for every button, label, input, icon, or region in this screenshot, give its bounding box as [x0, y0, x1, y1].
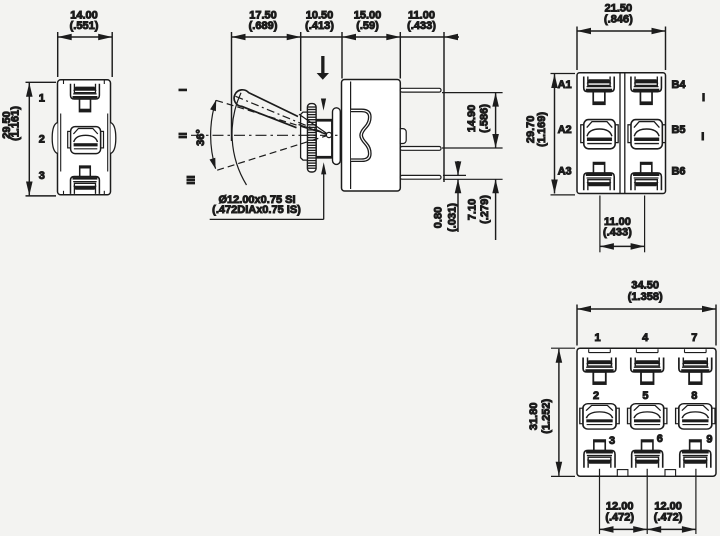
extension lines of top dimensions	[231, 32, 233, 141]
top-right view: terminal B6	[631, 163, 661, 191]
svg-text:2: 2	[593, 390, 599, 402]
bottom-right view: dimension 31.80 (1.252)	[528, 348, 575, 476]
svg-text:III: III	[186, 175, 198, 184]
svg-text:(1.161): (1.161)	[10, 106, 22, 141]
svg-text:I: I	[702, 92, 705, 104]
svg-text:5: 5	[642, 390, 648, 402]
svg-text:A3: A3	[558, 166, 572, 178]
top-right view: terminal A1	[584, 77, 614, 105]
svg-text:14.90: 14.90	[466, 105, 478, 133]
top-right view: terminal A3	[584, 163, 614, 191]
bottom-right view: body outline	[577, 348, 716, 476]
middle view: dimension 0.80 (.031)	[433, 161, 466, 232]
left view: switch body outline	[52, 80, 116, 195]
svg-text:B6: B6	[671, 166, 685, 178]
svg-text:(.472): (.472)	[654, 512, 683, 524]
bottom-right view: terminal 8 (screw)	[676, 404, 715, 429]
middle view: flange washer	[333, 108, 341, 165]
middle view: knurled nut	[307, 104, 316, 172]
middle view: position II axis (center line)	[191, 134, 341, 136]
middle view: dimension 7.10 (.279)	[443, 179, 503, 240]
svg-text:(.031): (.031)	[446, 203, 458, 232]
middle view: pin 3	[400, 175, 441, 179]
left view: right side bump	[111, 123, 116, 154]
top-right view: terminal A2	[581, 120, 618, 149]
svg-text:1: 1	[595, 332, 601, 344]
left view: left side bump	[52, 123, 57, 154]
left view: dimension 14.00 (.551)	[58, 9, 112, 77]
middle view: boss on right face	[400, 129, 406, 144]
middle view: mounting clip	[351, 109, 371, 161]
svg-text:(1.252): (1.252)	[541, 399, 553, 434]
bottom-right view: terminal 9 (spade, mirrored)	[680, 440, 711, 468]
middle view: bushing cylinder	[316, 120, 332, 159]
svg-text:(1.358): (1.358)	[628, 291, 663, 303]
svg-text:0.80: 0.80	[433, 207, 445, 228]
bottom-right view: terminal 3 (spade, mirrored)	[584, 440, 615, 468]
bottom-right view: dimensions 12.00 (.472) x2	[600, 469, 696, 534]
svg-text:(.846): (.846)	[604, 14, 633, 26]
svg-text:II: II	[177, 132, 189, 138]
top-right view: dimension 11.00 (.433)	[600, 196, 645, 253]
svg-text:B5: B5	[671, 124, 685, 136]
left view: top edge step marks	[63, 80, 65, 84]
bottom-right view: terminal 7 (spade)	[679, 358, 712, 385]
bottom-right view: top edge steps	[589, 349, 706, 352]
middle view: pin 1	[400, 88, 441, 92]
svg-text:(.59): (.59)	[356, 20, 379, 32]
svg-text:36°: 36°	[195, 129, 207, 146]
svg-text:6: 6	[657, 433, 663, 445]
svg-text:2: 2	[39, 134, 45, 146]
svg-text:(.433): (.433)	[407, 20, 436, 32]
middle view: lever tip sweep arc	[232, 93, 246, 185]
bottom-right view: terminal 5 (screw)	[628, 404, 667, 429]
middle view: chained top dimensions 17.50 10.50 15.00 11.00	[232, 9, 460, 182]
left view: terminal 3 (spade, mirrored)	[71, 166, 100, 194]
svg-text:(.689): (.689)	[249, 20, 278, 32]
top-right view: terminal B5	[628, 120, 665, 149]
bottom-right view: terminal 6 (spade, mirrored)	[632, 440, 663, 468]
left view: terminal 2 (screw)	[68, 127, 104, 154]
middle view: front bushing face	[301, 112, 308, 160]
top-right view: dimension 21.50 (.846)	[577, 3, 666, 71]
svg-text:(.472): (.472)	[605, 512, 634, 524]
svg-text:7.10: 7.10	[466, 199, 478, 220]
bottom-right view: bottom edge slots	[617, 470, 628, 477]
top-right view: dimension 29.70 (1.169)	[525, 74, 575, 195]
top-right view: center divider	[619, 74, 621, 194]
top-right view: body outline	[577, 73, 666, 194]
svg-text:7: 7	[691, 332, 697, 344]
bottom-right view: terminal 2 (screw)	[580, 404, 619, 429]
bottom-right view: terminal 1 (spade)	[583, 358, 616, 385]
svg-text:12.00: 12.00	[654, 500, 682, 512]
svg-text:B4: B4	[671, 79, 686, 91]
middle view: right-side dimension 14.90 (.586)	[442, 93, 503, 148]
left view: terminal 1 (spade)	[71, 84, 100, 112]
middle view: pin 2	[400, 147, 441, 151]
svg-text:12.00: 12.00	[606, 500, 634, 512]
middle view: position III axis (dashed)	[217, 135, 329, 170]
svg-text:(.413): (.413)	[305, 20, 334, 32]
bottom-right view: terminal 4 (spade)	[631, 358, 664, 385]
middle view: thread callout leader arrows	[321, 99, 326, 111]
svg-text:31.80: 31.80	[528, 403, 540, 431]
svg-text:(1.169): (1.169)	[536, 112, 548, 147]
middle view: push direction arrow	[317, 56, 329, 80]
svg-text:4: 4	[642, 332, 649, 344]
middle view: lever axis (dash-dot)	[236, 96, 330, 135]
svg-text:9: 9	[706, 433, 712, 445]
middle view: position I axis (dashed)	[216, 100, 329, 135]
svg-text:3: 3	[39, 170, 45, 182]
middle view: switch body	[342, 80, 401, 192]
svg-text:8: 8	[691, 390, 697, 402]
middle view: 36 degree arc with arrows	[211, 100, 216, 169]
svg-text:(.586): (.586)	[478, 104, 490, 133]
svg-text:(.472DIAx0.75 IS): (.472DIAx0.75 IS)	[212, 204, 301, 216]
svg-text:1: 1	[39, 93, 45, 105]
left view: dimension 29.50 (1.161)	[1, 82, 56, 196]
svg-text:(.551): (.551)	[70, 20, 99, 32]
top-right view: terminal B4	[631, 77, 661, 105]
svg-text:3: 3	[609, 435, 615, 447]
svg-text:A2: A2	[558, 124, 572, 136]
svg-text:I: I	[177, 88, 189, 91]
svg-text:I: I	[701, 131, 704, 143]
svg-text:(.279): (.279)	[479, 195, 491, 224]
bottom-right view: dimension 34.50 (1.358)	[577, 280, 716, 346]
svg-text:A1: A1	[558, 79, 572, 91]
middle view: lever edge rays to pivot	[299, 114, 329, 135]
middle view: pivot point	[326, 132, 331, 137]
middle view: toggle lever (position I)	[234, 90, 298, 128]
svg-text:(.433): (.433)	[603, 227, 632, 239]
